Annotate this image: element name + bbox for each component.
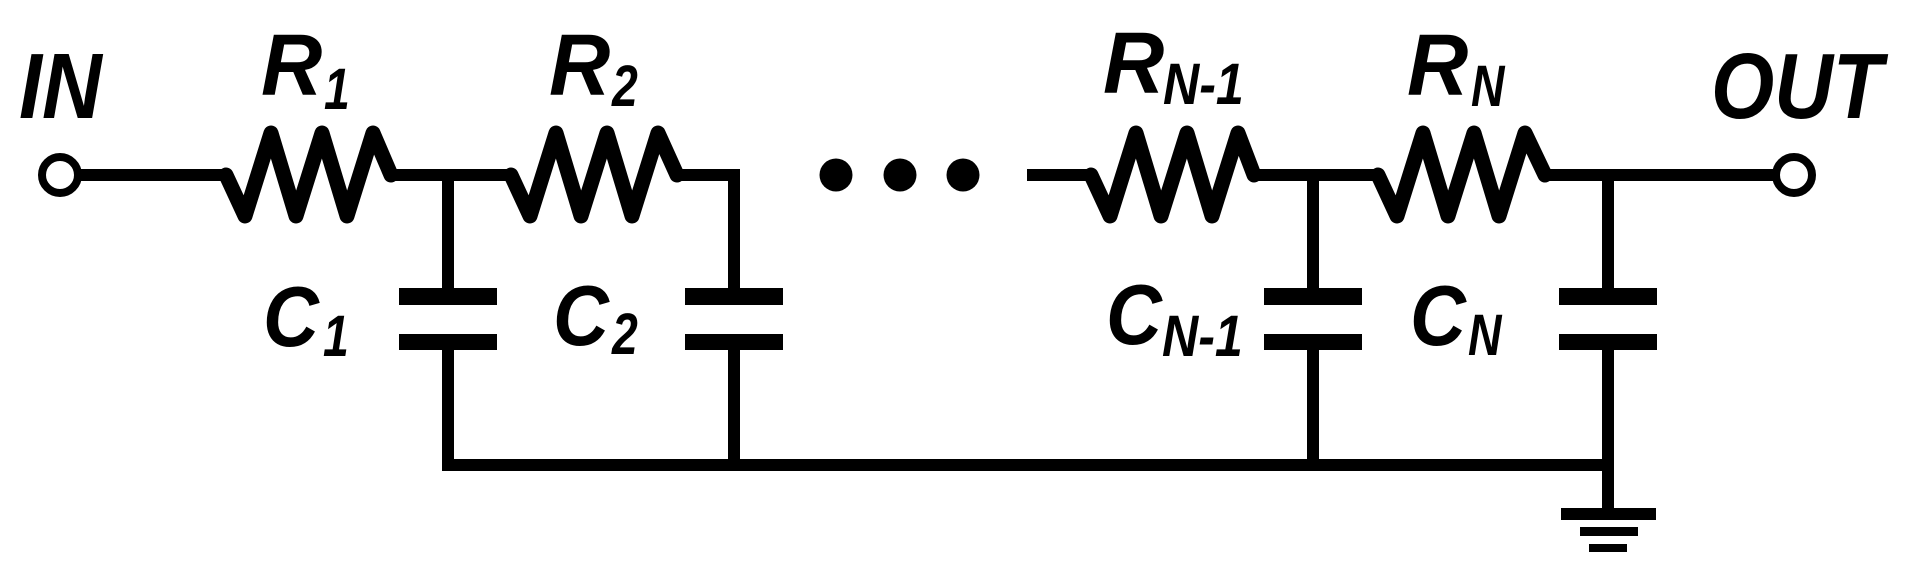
wire C2 to bottom rail [728, 350, 740, 470]
wire node 1 down to C1 [442, 175, 454, 292]
ellipsis dot 3 [947, 159, 980, 192]
label C N [1410, 269, 1502, 369]
resistor R1 [226, 133, 391, 216]
svg-text:C: C [263, 270, 320, 365]
svg-text:OUT: OUT [1711, 34, 1889, 138]
svg-text:C: C [553, 269, 610, 364]
svg-text:N-1: N-1 [1162, 305, 1243, 369]
wire R N to OUT through node 4 [1543, 169, 1776, 181]
capacitor C1 [399, 288, 497, 350]
svg-text:1: 1 [324, 57, 350, 122]
svg-text:2: 2 [611, 302, 638, 367]
label C1 [263, 270, 349, 370]
wire C N down to ground [1602, 350, 1614, 512]
node OUT terminal circle [1776, 157, 1812, 193]
label C N-1 [1106, 268, 1243, 369]
svg-text:R: R [549, 17, 610, 114]
svg-text:N: N [1468, 303, 1502, 368]
label R2 [549, 17, 638, 119]
wire into R N-1 [1027, 169, 1093, 181]
wire C N-1 to bottom rail [1307, 350, 1319, 470]
label C2 [553, 269, 638, 368]
svg-text:R: R [1407, 17, 1468, 114]
wire node 3 down to C N-1 [1307, 175, 1319, 292]
ellipsis dot 2 [884, 159, 917, 192]
label R1 [261, 17, 350, 122]
capacitor C2 [685, 288, 783, 350]
svg-text:C: C [1106, 268, 1163, 363]
wire C1 to bottom rail [442, 350, 454, 470]
capacitor C N [1559, 288, 1657, 350]
capacitor C N-1 [1264, 288, 1362, 350]
svg-text:N: N [1471, 54, 1505, 119]
ground symbol [1561, 508, 1656, 552]
svg-text:1: 1 [323, 304, 349, 369]
svg-text:R: R [1103, 15, 1164, 112]
label R N [1407, 17, 1505, 119]
wire R2 to node 2 corner then down to C2 [675, 175, 734, 292]
svg-text:C: C [1410, 269, 1467, 364]
svg-text:N-1: N-1 [1163, 53, 1244, 117]
ellipsis dot 1 [820, 159, 853, 192]
bottom rail wire [442, 459, 1614, 471]
node IN terminal circle [42, 157, 78, 193]
label R N-1 [1103, 15, 1244, 117]
resistor R2 [511, 133, 677, 216]
wire IN to R1 [78, 169, 228, 181]
svg-text:R: R [261, 17, 322, 114]
resistor R N-1 [1091, 133, 1254, 216]
wire R1 to R2 through node 1 [389, 169, 513, 181]
wire node 4 down to C N [1602, 175, 1614, 292]
wire R N-1 to R N through node 3 [1252, 169, 1380, 181]
svg-text:IN: IN [19, 33, 104, 138]
resistor R N [1378, 133, 1545, 216]
svg-text:2: 2 [611, 54, 638, 119]
